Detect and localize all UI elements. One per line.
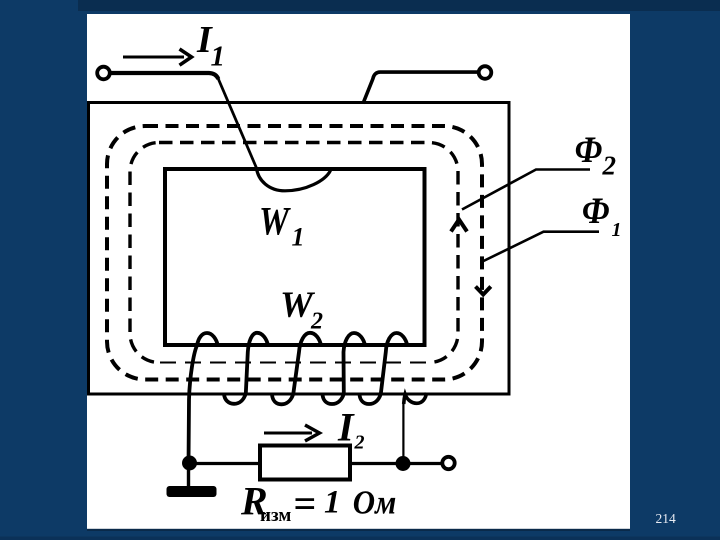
- leader line Ф2: [462, 170, 590, 210]
- svg-text:I: I: [337, 405, 355, 450]
- svg-text:2: 2: [602, 151, 617, 181]
- svg-text:изм: изм: [260, 505, 291, 526]
- wire: winding W1 to right terminal: [363, 72, 479, 103]
- current arrow I1: [123, 56, 184, 59]
- core window (inner boundary): [165, 169, 425, 345]
- leader line Ф1: [484, 232, 600, 261]
- svg-text:=: =: [294, 481, 317, 526]
- svg-text:2: 2: [354, 432, 365, 454]
- terminal (right of W1): [479, 66, 492, 79]
- svg-text:214: 214: [656, 511, 677, 526]
- wire: junction to resistor: [189, 462, 261, 465]
- svg-text:Ф: Ф: [582, 190, 610, 231]
- current arrow I2: [264, 432, 312, 435]
- ground: [187, 464, 190, 488]
- svg-text:Ф: Ф: [575, 129, 603, 170]
- winding W2: lobe 1 + turn 2: [224, 333, 268, 404]
- flux Ф1 direction arrow (down): [476, 287, 491, 295]
- svg-text:2: 2: [310, 309, 323, 335]
- resistor R_изм: [260, 446, 350, 480]
- node (right junction): [396, 456, 411, 471]
- winding W1 front turn (dip in window): [257, 168, 331, 191]
- svg-text:W: W: [259, 199, 291, 243]
- magnetic core outer boundary: [89, 103, 510, 395]
- wire: resistor to right junction: [350, 462, 441, 465]
- winding W2: left lead and turn 1 hump: [189, 333, 218, 464]
- svg-text:Ом: Ом: [353, 484, 397, 522]
- winding W2: lobe 3 + turn 4: [323, 333, 366, 404]
- svg-text:1: 1: [292, 223, 305, 252]
- flux path Ф2 (inner dashed): [130, 143, 458, 363]
- label Ф1: [582, 190, 610, 231]
- svg-text:1: 1: [612, 219, 622, 241]
- label Ф2: [575, 129, 603, 170]
- terminal (output, right): [442, 457, 454, 469]
- winding W2: lobe 2 + turn 3: [272, 333, 321, 405]
- terminal (left input): [97, 67, 110, 80]
- label W1: [259, 199, 291, 243]
- white diagram panel: [87, 14, 630, 529]
- svg-text:1: 1: [324, 485, 341, 521]
- svg-text:1: 1: [211, 41, 226, 73]
- wire: left terminal to winding W1: [110, 73, 218, 79]
- flux path Ф2 bottom segment (thin dashes): [160, 359, 428, 365]
- node (left junction): [182, 456, 197, 471]
- flux path Ф1 (outer dashed): [107, 126, 482, 380]
- winding W2: lobe 4 + turn 5: [360, 333, 408, 404]
- winding W2: lobe 5 + right lead: [404, 393, 427, 405]
- flux Ф2 direction arrow (up): [451, 220, 467, 232]
